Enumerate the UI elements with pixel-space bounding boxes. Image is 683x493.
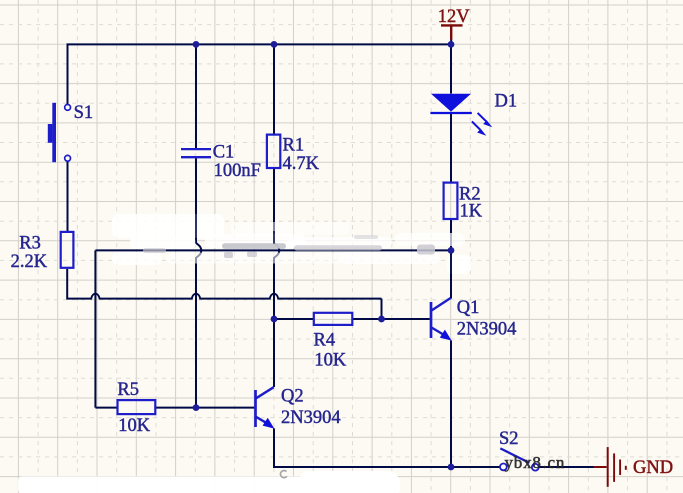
svg-text:1K: 1K — [460, 202, 483, 222]
svg-text:Q1: Q1 — [457, 298, 480, 318]
svg-text:R5: R5 — [117, 380, 139, 400]
svg-text:S2: S2 — [499, 429, 519, 449]
svg-text:2N3904: 2N3904 — [457, 320, 517, 340]
svg-text:2.2K: 2.2K — [11, 252, 48, 272]
svg-text:GND: GND — [633, 458, 673, 478]
svg-text:Q2: Q2 — [281, 387, 304, 407]
svg-text:C1: C1 — [213, 143, 235, 163]
svg-text:100nF: 100nF — [214, 161, 261, 181]
svg-text:R4: R4 — [314, 331, 336, 351]
svg-text:ybx8: ybx8 — [505, 453, 542, 472]
svg-text:D1: D1 — [495, 91, 518, 111]
svg-text:10K: 10K — [314, 350, 347, 370]
svg-text:.cn: .cn — [543, 453, 566, 472]
svg-text:R1: R1 — [283, 136, 305, 156]
svg-text:10K: 10K — [118, 416, 151, 436]
svg-text:2N3904: 2N3904 — [281, 408, 341, 428]
svg-text:12V: 12V — [438, 7, 471, 27]
svg-text:R3: R3 — [19, 234, 41, 254]
svg-text:4.7K: 4.7K — [283, 154, 320, 174]
svg-text:S1: S1 — [74, 103, 94, 123]
